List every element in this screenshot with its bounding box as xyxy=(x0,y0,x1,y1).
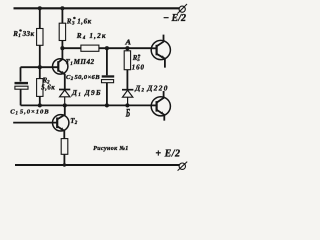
transistor T3 (upper output) xyxy=(151,35,170,68)
top supply rail xyxy=(14,7,180,9)
svg-text:Д1Д9Б: Д1Д9Б xyxy=(71,88,102,98)
terminal -E/2 xyxy=(177,4,187,14)
junction dot D1/T2 collector xyxy=(63,103,67,107)
svg-text:R3*1,6к: R3*1,6к xyxy=(66,16,92,27)
svg-text:− E/2: − E/2 xyxy=(163,13,186,24)
junction dot D2 bottom (node B) xyxy=(125,103,129,107)
capacitor C1 xyxy=(15,82,29,106)
svg-text:Т1МП42: Т1МП42 xyxy=(65,58,94,67)
resistor R1 xyxy=(37,8,43,67)
wire: collector lead T1 xyxy=(58,48,62,62)
wire: bottom supply rail xyxy=(15,164,179,166)
svg-text:Т2: Т2 xyxy=(70,117,77,126)
junction dot C2 top xyxy=(105,46,109,50)
transistor T1 xyxy=(53,59,68,90)
junction dot R1 top xyxy=(38,6,42,10)
resistor R3 xyxy=(59,8,65,48)
terminal +E/2 xyxy=(178,162,188,171)
transistor T2 xyxy=(53,105,69,138)
junction dot R2 bottom xyxy=(38,103,42,107)
wire: node A bus (y=48.2) xyxy=(62,47,81,49)
capacitor C2 xyxy=(102,48,115,105)
wire: node A bus right xyxy=(99,47,152,49)
svg-text:С15,0×10В: С15,0×10В xyxy=(10,109,49,117)
resistor R5 xyxy=(124,48,130,89)
svg-text:160: 160 xyxy=(132,65,145,72)
svg-text:Рисунок №1: Рисунок №1 xyxy=(93,146,128,152)
svg-text:С250,0×6В: С250,0×6В xyxy=(66,74,100,82)
svg-text:+ E/2: + E/2 xyxy=(155,149,180,160)
wire: base bus of T1 (y=67.2) xyxy=(21,66,59,68)
diode D2 xyxy=(122,90,133,106)
svg-text:R1*33к: R1*33к xyxy=(12,28,34,39)
transistor T4 (lower output) xyxy=(151,91,170,121)
svg-text:R5*: R5* xyxy=(132,53,141,63)
wire: T2 base lead xyxy=(13,122,57,124)
svg-text:5,6к: 5,6к xyxy=(41,84,55,91)
svg-text:Д2Д220: Д2Д220 xyxy=(134,83,169,93)
node A xyxy=(125,46,129,50)
junction dot R1/R2/base bus xyxy=(38,65,42,69)
resistor R2 xyxy=(37,67,43,105)
svg-text:R41,2к: R41,2к xyxy=(76,32,107,41)
junction dot R6 bottom xyxy=(63,163,66,166)
wire: node B bus (y=105.4) xyxy=(21,104,152,106)
junction dot C2 bottom xyxy=(105,103,109,107)
wire: C1 upper lead xyxy=(20,67,22,81)
resistor R6 (emitter of T2) xyxy=(61,139,68,165)
junction dot node R3/R4 xyxy=(60,46,64,50)
resistor R4 xyxy=(81,45,99,51)
svg-text:А: А xyxy=(124,38,131,46)
svg-text:Б: Б xyxy=(125,108,130,120)
junction dot R3 top xyxy=(60,6,64,10)
diode D1 xyxy=(59,90,70,106)
